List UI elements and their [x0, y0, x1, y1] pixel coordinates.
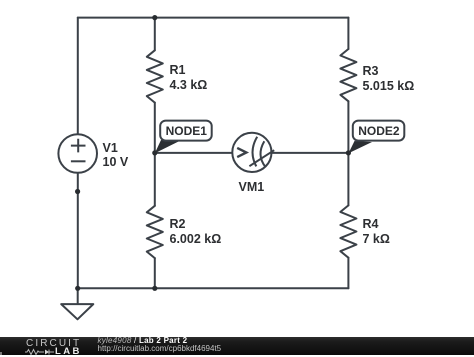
credit line — [98, 336, 188, 345]
voltage source V1 — [58, 134, 97, 173]
node NODE1 flag — [155, 121, 212, 154]
label VM1 — [239, 180, 265, 195]
url line — [98, 344, 222, 353]
wire R4 to bottom — [347, 258, 349, 289]
logo resistor zigzag — [25, 349, 44, 354]
wire node1 to R2 — [154, 153, 156, 206]
wire middle left (node1 to VM1) — [155, 152, 233, 154]
wire node2 to R4 — [347, 153, 349, 206]
wire R1 stem from top — [154, 18, 156, 51]
label R2 value 6.002 kΩ — [170, 217, 222, 247]
wire bottom horizontal — [78, 287, 349, 289]
footer bar — [0, 337, 474, 355]
label R3 value 5.015 kΩ — [363, 64, 415, 94]
wire R1 to node1 — [154, 103, 156, 153]
label V1 value 10 V — [103, 141, 129, 169]
label R4 value 7 kΩ — [363, 217, 390, 247]
label R1 value 4.3 kΩ — [170, 63, 208, 93]
resistor R4 — [340, 205, 356, 257]
wire ground stem — [77, 288, 79, 304]
junction dot top (R1 branch) — [152, 15, 157, 20]
node NODE2 flag — [349, 121, 405, 154]
node A (node1 junction) — [152, 150, 157, 155]
junction dot below V1 — [75, 189, 80, 194]
ground — [61, 304, 93, 319]
wire middle right (VM1 to node2) — [271, 152, 348, 154]
corner artifact — [0, 352, 2, 355]
resistor R3 — [340, 49, 356, 101]
resistor R1 — [147, 50, 163, 102]
wire R2 to bottom — [154, 258, 156, 288]
junction dot bottom (R2 branch) — [152, 286, 157, 291]
wire right vertical (top corner to R3) — [347, 18, 349, 49]
wire top horizontal — [78, 17, 349, 19]
wire R3 to node2 — [347, 101, 349, 153]
svg-text:NODE2: NODE2 — [358, 124, 400, 138]
junction dot bottom left (ground) — [75, 286, 80, 291]
wire V1 bottom to ground junction — [77, 173, 79, 288]
logo diode — [45, 349, 49, 354]
voltmeter VM1 — [232, 133, 274, 172]
logo CircuitLab — [26, 338, 81, 349]
svg-text:NODE1: NODE1 — [166, 124, 208, 138]
wire left vertical (V1 to top-left corner) — [77, 18, 79, 135]
node B (node2 junction) — [346, 150, 351, 155]
resistor R2 — [147, 206, 163, 258]
